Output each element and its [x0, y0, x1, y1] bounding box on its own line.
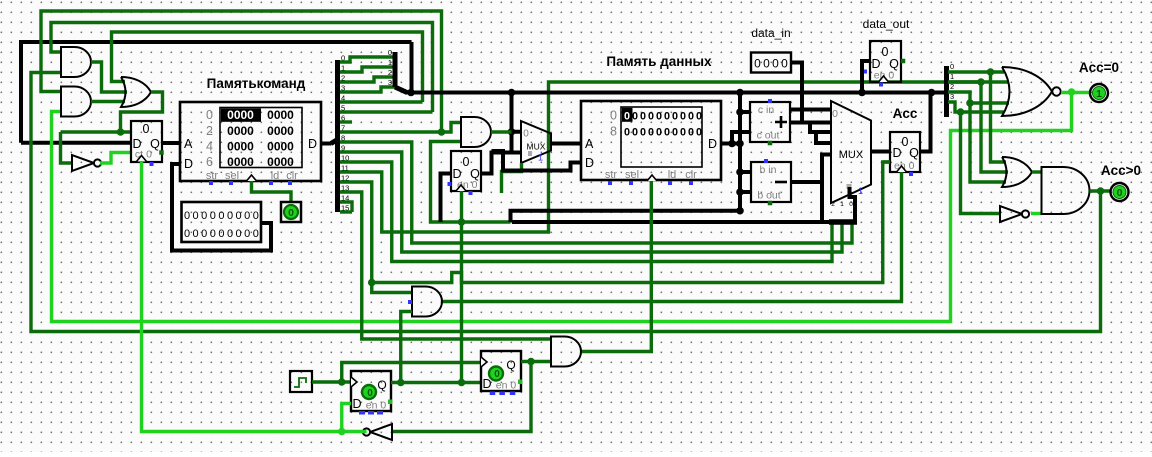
RAM data memory contents box	[621, 107, 702, 167]
wire NOT1 output to PC count-enable	[100, 153, 131, 164]
svg-text:0: 0	[849, 201, 853, 208]
svg-text:A: A	[184, 137, 193, 151]
wire OR O2 output to AND A5	[1032, 170, 1042, 173]
wire FF1 Q riser to AND A4 lower input	[401, 312, 412, 383]
wire instr bit1 to address splitter	[340, 67, 395, 72]
wire AND A2 output to OR1 lower input	[91, 100, 125, 103]
pin PC clock triangle	[137, 156, 147, 162]
svg-text:0: 0	[218, 228, 224, 240]
RAM instruction memory Памятькоманд outer box	[180, 102, 321, 181]
node ALU column sub2 junction	[736, 168, 744, 176]
svg-text:MUX: MUX	[527, 142, 546, 152]
svg-text:0: 0	[664, 111, 670, 123]
svg-text:0: 0	[772, 57, 779, 71]
pin adder carry-in blue	[768, 99, 772, 103]
node FF1 Q fanout A4	[397, 379, 405, 387]
svg-text:0: 0	[672, 127, 678, 139]
wire instr bit4 finger	[340, 100, 423, 103]
splitter S1 root diagonal	[331, 140, 338, 144]
node clock feedback branch	[338, 428, 346, 436]
wire feedback riser to MUX M2 input	[822, 155, 831, 223]
wire Acc enable stub	[883, 160, 890, 163]
wire Acc=0 bright feedback to AND2 lower input	[52, 93, 1072, 322]
svg-text:0: 0	[696, 127, 702, 139]
wire instr bit12 to Acc enable run	[340, 182, 372, 283]
splitter S1 trunk	[335, 60, 340, 212]
svg-text:en 0: en 0	[496, 380, 517, 392]
wire W1 instruction bit7 from splitter to AND2 upper input	[41, 11, 442, 132]
wire data_in to MUX M2 input	[791, 63, 802, 123]
wire instr bit13 to AND A6 upper input	[340, 192, 551, 339]
pin data-mem clock triangle	[647, 175, 657, 181]
NOT gate N3 clock inverter	[363, 424, 392, 440]
wire bit12 run to Acc enable	[372, 162, 890, 283]
svg-text:0: 0	[610, 109, 617, 123]
node bit0 tap	[987, 68, 995, 76]
svg-text:0: 0	[832, 108, 838, 120]
OR gate O2	[1002, 157, 1032, 187]
wire PC clock bright distribution to clock circuit	[142, 162, 363, 432]
svg-text:0: 0	[253, 210, 259, 222]
svg-text:clr: clr	[286, 170, 298, 182]
RAM instruction memory highlighted cell	[221, 108, 261, 121]
svg-text:0: 0	[640, 111, 646, 123]
svg-text:2: 2	[831, 201, 835, 208]
wire node to NOT1 input	[61, 132, 73, 163]
AND gate A6 data-mem clock gate	[551, 337, 581, 367]
svg-text:0: 0	[696, 111, 702, 123]
svg-text:Q: Q	[909, 146, 919, 160]
wire data_out D input from bus	[862, 61, 870, 93]
node bus to ALU column	[736, 89, 744, 97]
wire data-mem D input from R1 Q bus	[492, 151, 582, 171]
svg-text:ld: ld	[668, 169, 677, 181]
svg-text:0000: 0000	[227, 155, 254, 169]
svg-text:0: 0	[624, 127, 630, 139]
svg-text:4: 4	[206, 140, 213, 154]
wire bus riser ALU column	[738, 93, 742, 211]
wire main address/data black bus	[406, 91, 946, 95]
node ALU column sub junction	[736, 188, 744, 196]
svg-text:0000: 0000	[267, 155, 294, 169]
wire S4 finger bit0 to NOR	[948, 70, 1004, 73]
svg-text:Acc>0: Acc>0	[1101, 163, 1141, 178]
NOR gate G1 Acc=0	[1002, 67, 1061, 116]
pin instr-mem str	[209, 181, 213, 185]
wire ALU column to subtractor input b	[740, 190, 751, 194]
register R1 operand register	[451, 151, 481, 191]
pin instr-mem clock triangle	[247, 175, 257, 181]
AND gate A4 Acc clock gate	[412, 287, 442, 317]
pin R2 enable blue	[863, 70, 867, 74]
pin R2 clock triangle	[879, 76, 889, 82]
pin FF2 clock triangle	[481, 357, 487, 367]
pin indicator green disc	[284, 205, 298, 219]
wire W2 instruction bit5 from splitter to AND1 upper input	[51, 23, 433, 113]
wire bit0 riser to OR O2 input1	[991, 72, 1007, 162]
svg-text:0: 0	[648, 111, 654, 123]
wire instr bit3 to address splitter	[340, 87, 395, 92]
wire black bus frame from splitter root to PC D input	[21, 42, 412, 143]
wire data-mem D to adder input b	[732, 132, 750, 144]
flip-flop FF2	[481, 351, 521, 391]
pin adder carry-out green	[768, 141, 773, 146]
wire bit3 riser to NOT N2 input	[961, 112, 1001, 214]
pin instr-mem ld	[269, 181, 273, 185]
svg-text:6: 6	[206, 155, 213, 169]
svg-text:0: 0	[882, 45, 889, 59]
wire CLK output	[312, 380, 351, 383]
pin R2 bottom blue	[879, 83, 883, 87]
symbol adder plus	[775, 116, 787, 128]
svg-text:str: str	[605, 169, 618, 181]
node Acc>0 feedback	[1097, 187, 1105, 195]
multiplexer MUX M2	[831, 101, 871, 203]
wire PC load node horizontal	[61, 130, 132, 133]
svg-text:0: 0	[193, 210, 199, 222]
pin data-mem clr	[689, 181, 693, 185]
wire instr bit8 to ALU-select splitter bit2	[340, 142, 852, 243]
pin R1 enable blue	[448, 182, 452, 186]
subtractor U2	[751, 162, 791, 202]
pin Acc clock triangle	[897, 166, 907, 172]
svg-text:Q: Q	[506, 358, 515, 372]
wire instr bit14 finger hook	[340, 202, 352, 212]
svg-text:ld: ld	[271, 170, 280, 182]
svg-text:D: D	[708, 137, 717, 151]
svg-text:0: 0	[763, 57, 770, 71]
svg-text:b in: b in	[760, 164, 777, 176]
NOT gate N1	[72, 155, 101, 171]
pin MUX M2 select stub	[847, 184, 852, 189]
svg-text:sel: sel	[225, 170, 239, 182]
node W1 joins bit7 finger	[438, 128, 446, 136]
svg-text:3: 3	[388, 78, 392, 87]
svg-text:D: D	[308, 137, 317, 151]
svg-text:0: 0	[656, 111, 662, 123]
svg-text:0: 0	[227, 228, 233, 240]
svg-text:0: 0	[523, 129, 529, 140]
wire NOT N2 output to AND A5	[1031, 212, 1042, 215]
wire MUX M2 input jog B	[816, 132, 831, 143]
wire MUX M2 upper input stub	[791, 108, 831, 112]
multiplexer MUX M1	[521, 121, 551, 163]
RAM data memory highlighted cell	[622, 108, 633, 122]
svg-text:0: 0	[648, 127, 654, 139]
wire instr bit5 finger	[340, 110, 433, 113]
pin subtractor borrow-out green	[768, 201, 773, 206]
pin data-mem str	[608, 181, 612, 185]
wire instr bit15 finger stub	[340, 210, 352, 213]
node bus at splitter root	[407, 89, 415, 97]
wire subtractor output to MUX M2	[791, 155, 831, 183]
node FF1 Q fanout R1 clock	[458, 379, 466, 387]
svg-text:0000: 0000	[227, 108, 254, 122]
symbol FF1 state disc	[362, 385, 376, 399]
svg-text:c in: c in	[758, 104, 775, 116]
svg-text:0: 0	[288, 207, 294, 219]
wire instr bit11 long run to NOR comb node	[340, 82, 981, 232]
wire S4 finger bit3 to NOR	[948, 102, 1004, 112]
splitter S3 root bar	[829, 219, 857, 225]
svg-text:0: 0	[244, 228, 250, 240]
node bit2 tap	[966, 99, 974, 107]
wire instr bit10 to ALU-select splitter bit0	[340, 162, 832, 262]
svg-text:0: 0	[201, 228, 207, 240]
symbol FF2 state disc	[489, 367, 503, 381]
svg-text:0: 0	[624, 111, 630, 123]
symbol subtractor minus	[775, 181, 787, 184]
wire bus riser to MUX M1 input	[510, 93, 514, 153]
svg-text:0: 0	[656, 127, 662, 139]
pin instr-mem sel	[229, 181, 233, 185]
svg-text:1: 1	[840, 201, 844, 208]
svg-text:0: 0	[218, 210, 224, 222]
svg-text:D: D	[892, 146, 901, 160]
flip-flop FF1	[351, 371, 391, 411]
pin FF2 blue dashes	[490, 392, 496, 396]
wire MUX M1 upper input stub	[512, 130, 522, 134]
node ALU column bottom junction	[736, 207, 744, 215]
wire instr-mem D-out to splitter root	[321, 142, 332, 146]
wire AND A3 output to MUX M1 upper input	[491, 130, 512, 133]
pin data-mem sel	[629, 181, 633, 185]
svg-text:0: 0	[672, 111, 678, 123]
wire bit1 riser to OR O2 input2	[981, 82, 1008, 172]
node bit1 tap	[977, 78, 985, 86]
pin Acc bottom blue	[909, 172, 913, 176]
wire instr bit0 to address splitter	[340, 57, 395, 62]
node register-clock junction	[458, 218, 466, 226]
AND gate A1 (bit5 & Acc>0)	[61, 47, 91, 77]
wire MUX M2 output to Acc D	[871, 150, 890, 154]
wire AND A3 lower input from register-clock node	[431, 142, 511, 223]
svg-text:Acc: Acc	[893, 106, 918, 121]
pin R2 Q stub	[901, 59, 906, 64]
svg-text:0: 0	[210, 210, 216, 222]
node clock fanout	[338, 378, 346, 386]
wire instr-mem D input loop around constant box	[172, 164, 271, 251]
wire ALU column to subtractor input a	[740, 170, 751, 174]
svg-text:b out: b out	[757, 190, 780, 202]
svg-text:0: 0	[781, 57, 788, 71]
svg-text:1: 1	[538, 153, 543, 163]
clock generator CLK	[290, 371, 312, 392]
node data-mem D-out junction	[728, 140, 736, 148]
node bus to Acc Q	[928, 89, 936, 97]
node ALU column mid junction	[736, 140, 744, 148]
register R2 data_out	[870, 41, 901, 82]
svg-text:0: 0	[193, 228, 199, 240]
splitter S3 ALU select trunk	[850, 187, 856, 222]
pin output indicator box	[281, 202, 301, 222]
svg-text:en 0: en 0	[366, 400, 387, 412]
pin PC reset blue	[150, 162, 154, 166]
wire S4 finger bit2 to NOR	[948, 92, 1009, 103]
svg-text:0: 0	[1117, 187, 1123, 199]
pin subtractor borrow-in blue	[764, 159, 768, 163]
pin instr-mem clr	[288, 181, 292, 185]
node bit3 tap	[957, 108, 965, 116]
svg-text:Acc=0: Acc=0	[1079, 60, 1119, 75]
svg-text:0: 0	[640, 127, 646, 139]
pin FF1 qbar bright square	[388, 400, 393, 405]
wire FF1 Q to FF2 D	[391, 381, 481, 384]
splitter S2 trunk	[393, 52, 398, 87]
svg-text:2: 2	[388, 68, 392, 77]
svg-text:0: 0	[244, 210, 250, 222]
wire R1 Q to MUX M1 lower input	[481, 153, 521, 174]
svg-text:0: 0	[680, 127, 686, 139]
wire FF2 Q to AND A6 lower input	[521, 360, 551, 363]
pin R1 bottom blue	[469, 191, 473, 195]
pin input data_in box	[751, 53, 791, 73]
node bit12 branch	[368, 279, 376, 287]
wire FF2 Q down to NOT N3 input	[392, 362, 531, 432]
wire adder output to MUX M2	[790, 121, 831, 125]
svg-text:clr: clr	[685, 169, 697, 181]
svg-text:0: 0	[494, 369, 500, 380]
svg-text:0: 0	[664, 127, 670, 139]
wire MUX M1 select from below	[502, 163, 522, 193]
wire W3 instruction bit4 from splitter to OR1 upper input	[112, 32, 423, 102]
svg-text:0000: 0000	[267, 140, 294, 154]
splitter S2 root diagonal	[395, 87, 407, 93]
svg-text:Q: Q	[377, 378, 386, 392]
wire data-mem D-out bus	[721, 142, 740, 146]
wire upper feedback bus to ALU column	[511, 211, 741, 222]
svg-text:1: 1	[858, 186, 863, 196]
wire Acc Q to main bus	[920, 93, 931, 152]
svg-text:data_out: data_out	[863, 17, 910, 31]
svg-text:1: 1	[1096, 88, 1102, 100]
svg-text:Память данных: Память данных	[606, 54, 712, 69]
node bus turn	[508, 89, 516, 97]
wire AND A5 output to Acc>0 pin	[1090, 189, 1111, 192]
svg-text:8: 8	[610, 125, 617, 139]
wire MUX M1 output to data-mem A	[551, 142, 581, 146]
svg-text:MUX: MUX	[839, 149, 864, 161]
wire instr bit9 to ALU-select splitter bit1	[340, 152, 842, 252]
wire instr bit6 finger stub	[340, 120, 352, 123]
splitter S4 Acc bits trunk	[944, 66, 949, 117]
svg-text:Памятькоманд: Памятькоманд	[207, 76, 306, 91]
wire bit2 riser to OR O2 input3	[970, 103, 1006, 182]
svg-text:0000: 0000	[227, 124, 254, 138]
svg-text:0: 0	[463, 155, 470, 169]
wire S4 finger bit1 to NOR	[948, 80, 1009, 83]
svg-text:sel: sel	[625, 169, 639, 181]
register R3 accumulator Acc	[890, 132, 920, 172]
svg-text:0: 0	[680, 111, 686, 123]
wire instr-mem clock pin to indicator	[252, 181, 292, 202]
svg-text:0: 0	[143, 122, 150, 136]
svg-text:data_in: data_in	[751, 26, 790, 40]
wire lower feedback bus under splitter S3	[512, 220, 857, 224]
node bus to data_out register	[858, 89, 866, 97]
svg-text:0: 0	[184, 210, 190, 222]
pin FF1 clock triangle	[351, 377, 357, 387]
svg-text:0: 0	[388, 48, 392, 57]
svg-text:0: 0	[253, 228, 259, 240]
pin AND A4 unused middle input	[408, 300, 412, 304]
svg-text:D: D	[352, 397, 361, 411]
wire PC Q to instr-mem A	[162, 141, 180, 145]
RAM data memory Память данных outer box	[581, 101, 721, 180]
pin data-mem ld	[668, 181, 672, 185]
svg-text:0: 0	[688, 111, 694, 123]
wire data-mem clock from AND A6	[581, 181, 651, 352]
svg-text:0: 0	[632, 111, 638, 123]
node ALU column adder junction	[736, 108, 744, 116]
pin R1 clock triangle	[456, 185, 466, 191]
svg-text:D: D	[184, 157, 193, 171]
wire instr bit7 finger to AND A3 upper input	[340, 123, 462, 133]
svg-text:0: 0	[236, 228, 242, 240]
pin MUX M1 select stub	[528, 151, 532, 156]
svg-text:1: 1	[388, 58, 392, 67]
svg-text:2: 2	[206, 124, 213, 138]
OR gate O1 branch-select	[121, 77, 151, 107]
counter PC program-counter	[131, 121, 162, 162]
svg-text:c out: c out	[757, 130, 780, 142]
svg-text:0: 0	[367, 388, 373, 399]
svg-text:0: 0	[184, 228, 190, 240]
wire AND A1 output to OR1 middle input	[91, 62, 127, 92]
svg-text:0: 0	[632, 127, 638, 139]
wire NOT N3 output to clock feedback	[362, 430, 367, 433]
pin PC carry out	[159, 150, 164, 155]
NOT gate N2	[1000, 206, 1029, 222]
wire ALU column to adder input a	[740, 110, 750, 114]
svg-text:0: 0	[206, 108, 213, 122]
wire R1 clock vertical from FF1 Q	[460, 191, 463, 383]
svg-text:0: 0	[210, 228, 216, 240]
svg-text:0000: 0000	[267, 108, 294, 122]
wire bit12 branch to AND A4 upper input	[372, 283, 412, 293]
pin output Acc=0	[1090, 84, 1108, 102]
wire Acc clock from AND A4	[442, 172, 902, 302]
svg-text:0: 0	[754, 57, 761, 71]
pin input constant box 10-bit x2	[182, 202, 262, 242]
node MUX M1 upper-input junction	[508, 128, 516, 136]
svg-text:0: 0	[902, 135, 909, 149]
wire black bus frame vertical segment to main bus	[410, 42, 414, 93]
wire MUX M2 input jog A	[810, 123, 831, 133]
svg-text:0000: 0000	[267, 124, 294, 138]
pin FF1 blue dashes	[359, 411, 365, 415]
adder U1	[750, 102, 790, 142]
node Acc=0 feedback	[1068, 88, 1076, 96]
AND gate A3 (bit6/bit7 decode)	[461, 117, 491, 147]
wire NOR output to Acc=0 pin	[1061, 91, 1090, 94]
svg-text:A: A	[585, 137, 594, 151]
wire instr bit2 to address splitter	[340, 77, 395, 82]
svg-text:0: 0	[688, 127, 694, 139]
node PC-load junction	[117, 128, 125, 136]
svg-text:0: 0	[227, 210, 233, 222]
node FF2 Q fanout	[527, 358, 535, 366]
RAM instruction memory contents box	[220, 108, 302, 168]
svg-text:str: str	[206, 170, 219, 182]
svg-text:0: 0	[236, 210, 242, 222]
wire FF1 D from feedback	[342, 404, 351, 432]
AND gate A5 Acc>0	[1042, 167, 1090, 214]
svg-text:0: 0	[201, 210, 207, 222]
wire OR O1 output loop to PC load node	[121, 92, 163, 132]
AND gate A2 (bit6 & Acc=0)	[61, 87, 91, 117]
pin output Acc>0	[1111, 183, 1129, 201]
